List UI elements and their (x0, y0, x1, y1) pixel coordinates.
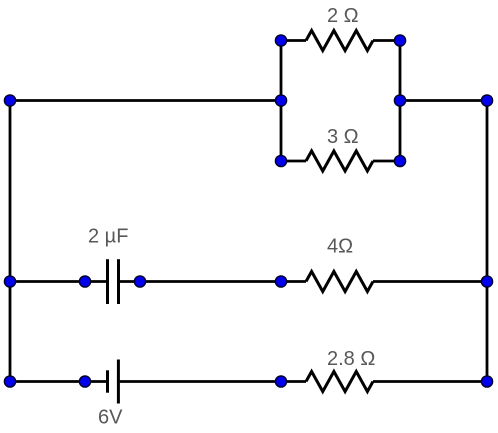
resistor 3 ohm zigzag (306, 151, 373, 171)
node parallel mid-left (275, 95, 286, 106)
svg-text:2 Ω: 2 Ω (327, 5, 359, 27)
resistor 2.8 ohm zigzag (306, 372, 373, 392)
wire 2.8 ohm right lead (373, 380, 487, 383)
wire 2 ohm left lead (281, 39, 306, 42)
node parallel bottom-left (275, 155, 286, 166)
wire left rail (9, 101, 12, 382)
node parallel top-right (394, 35, 405, 46)
wire bottom row left segment (10, 380, 106, 383)
svg-text:6V: 6V (98, 407, 123, 429)
node 2.8 ohm left (275, 376, 286, 387)
node right middle (481, 276, 492, 287)
wire 3 ohm right lead (373, 160, 400, 163)
node right bottom (481, 376, 492, 387)
wire battery to 2.8 ohm resistor (120, 380, 306, 383)
battery V1 short plate (106, 370, 109, 392)
wire 3 ohm left lead (281, 160, 306, 163)
svg-text:2.8 Ω: 2.8 Ω (327, 348, 375, 370)
svg-text:3 Ω: 3 Ω (327, 126, 359, 148)
battery V1 long plate (117, 360, 120, 404)
capacitor C1 left plate (106, 259, 109, 304)
node battery left (79, 376, 90, 387)
wire capacitor to 4 ohm resistor (120, 280, 306, 283)
svg-text:2 µF: 2 µF (88, 226, 128, 248)
resistor 4 ohm zigzag (306, 272, 373, 292)
wire node B to right rail (400, 99, 487, 102)
wire parallel-section left rail (280, 41, 283, 162)
svg-text:4Ω: 4Ω (327, 236, 353, 258)
resistor 2 ohm zigzag (306, 31, 373, 51)
node left top (4, 95, 15, 106)
node left middle (4, 276, 15, 287)
node parallel top-left (275, 35, 286, 46)
capacitor C1 right plate (117, 259, 120, 304)
wire top horizontal (10, 99, 281, 102)
node parallel mid-right (394, 95, 405, 106)
node capacitor right (134, 276, 145, 287)
wire parallel-section right rail (399, 41, 402, 162)
node parallel bottom-right (394, 155, 405, 166)
wire right rail (486, 101, 489, 382)
node 4 ohm left (275, 276, 286, 287)
node right top (481, 95, 492, 106)
wire middle row left segment (10, 280, 106, 283)
wire 2 ohm right lead (373, 39, 400, 42)
node capacitor left (79, 276, 90, 287)
wire 4 ohm right lead (373, 280, 487, 283)
node left bottom (4, 376, 15, 387)
